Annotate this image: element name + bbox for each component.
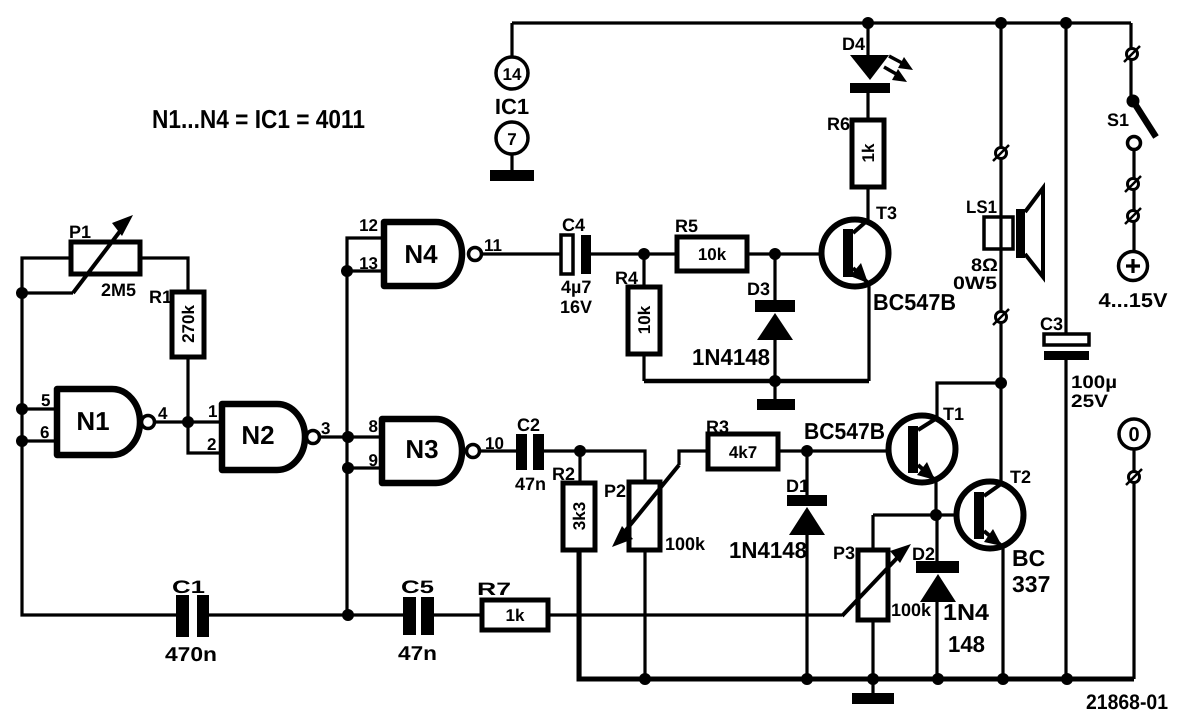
svg-text:4...15V: 4...15V xyxy=(1099,290,1169,312)
svg-text:C5: C5 xyxy=(401,577,434,597)
svg-text:4k7: 4k7 xyxy=(729,443,757,462)
svg-text:D4: D4 xyxy=(842,34,865,54)
svg-text:D1: D1 xyxy=(786,476,809,496)
svg-text:11: 11 xyxy=(484,236,502,255)
svg-text:2M5: 2M5 xyxy=(101,280,136,300)
svg-text:P2: P2 xyxy=(604,481,626,501)
svg-text:3: 3 xyxy=(321,419,330,438)
svg-text:0W5: 0W5 xyxy=(953,273,997,293)
svg-text:R3: R3 xyxy=(706,417,729,437)
svg-text:R1: R1 xyxy=(149,287,172,307)
svg-text:47n: 47n xyxy=(398,643,437,665)
svg-text:2: 2 xyxy=(207,435,216,454)
svg-text:4µ7: 4µ7 xyxy=(561,277,591,297)
svg-text:5: 5 xyxy=(41,391,50,410)
svg-text:LS1: LS1 xyxy=(966,197,997,217)
svg-text:14: 14 xyxy=(503,65,522,84)
svg-text:T1: T1 xyxy=(943,404,964,424)
svg-text:R6: R6 xyxy=(827,114,850,134)
svg-text:0: 0 xyxy=(1128,424,1139,446)
svg-text:C4: C4 xyxy=(562,215,585,235)
svg-text:100k: 100k xyxy=(891,600,932,620)
svg-text:7: 7 xyxy=(507,130,516,149)
svg-text:148: 148 xyxy=(948,631,985,657)
svg-text:C2: C2 xyxy=(517,415,540,435)
svg-text:10: 10 xyxy=(485,434,504,453)
svg-text:1N4148: 1N4148 xyxy=(729,537,807,563)
svg-text:R5: R5 xyxy=(675,216,698,236)
svg-text:D3: D3 xyxy=(747,279,770,299)
svg-text:D2: D2 xyxy=(912,544,935,564)
svg-text:BC547B: BC547B xyxy=(804,418,885,444)
svg-text:1N4: 1N4 xyxy=(943,599,989,625)
svg-text:S1: S1 xyxy=(1107,110,1129,130)
svg-text:47n: 47n xyxy=(515,474,546,494)
svg-text:N1: N1 xyxy=(76,406,109,436)
svg-text:1k: 1k xyxy=(859,143,878,162)
svg-text:3k3: 3k3 xyxy=(570,502,589,530)
svg-text:9: 9 xyxy=(369,451,378,470)
svg-text:N1...N4 = IC1 = 4011: N1...N4 = IC1 = 4011 xyxy=(152,104,365,134)
svg-text:8Ω: 8Ω xyxy=(971,255,998,275)
svg-text:6: 6 xyxy=(40,423,49,442)
svg-text:BC: BC xyxy=(1012,545,1045,571)
svg-text:10k: 10k xyxy=(635,305,654,334)
svg-text:1: 1 xyxy=(208,402,217,421)
svg-text:8: 8 xyxy=(369,417,378,436)
svg-text:N2: N2 xyxy=(241,420,274,450)
svg-text:21868-01: 21868-01 xyxy=(1086,691,1168,714)
svg-text:25V: 25V xyxy=(1071,391,1108,411)
svg-text:16V: 16V xyxy=(560,297,592,317)
svg-text:BC547B: BC547B xyxy=(873,289,956,315)
svg-text:1N4148: 1N4148 xyxy=(692,344,770,370)
svg-text:T3: T3 xyxy=(876,203,897,223)
svg-text:100µ: 100µ xyxy=(1071,372,1117,392)
svg-text:C3: C3 xyxy=(1040,314,1063,334)
svg-text:470n: 470n xyxy=(165,644,217,666)
svg-text:10k: 10k xyxy=(698,245,727,264)
svg-text:C1: C1 xyxy=(172,577,205,597)
svg-text:337: 337 xyxy=(1012,571,1050,597)
svg-text:12: 12 xyxy=(359,216,378,235)
svg-text:P3: P3 xyxy=(833,543,855,563)
svg-text:R2: R2 xyxy=(552,464,575,484)
svg-text:T2: T2 xyxy=(1010,467,1031,487)
svg-text:IC1: IC1 xyxy=(495,94,529,119)
svg-text:N4: N4 xyxy=(404,239,438,269)
svg-text:R7: R7 xyxy=(477,579,511,599)
svg-text:1k: 1k xyxy=(506,606,525,625)
svg-text:R4: R4 xyxy=(615,268,638,288)
svg-text:4: 4 xyxy=(158,404,168,423)
svg-text:13: 13 xyxy=(359,254,378,273)
svg-text:100k: 100k xyxy=(665,534,706,554)
svg-text:270k: 270k xyxy=(179,305,198,343)
svg-text:P1: P1 xyxy=(69,222,91,242)
svg-text:N3: N3 xyxy=(405,434,438,464)
